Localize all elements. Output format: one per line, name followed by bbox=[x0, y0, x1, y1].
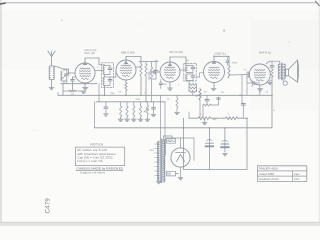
svg-text:NOTES: NOTES bbox=[90, 143, 104, 147]
svg-text:PHILIPS 462A: PHILIPS 462A bbox=[259, 167, 278, 171]
svg-text:6SA7 (M): 6SA7 (M) bbox=[84, 52, 95, 55]
svg-text:50M: 50M bbox=[136, 98, 141, 101]
svg-text:2003: 2003 bbox=[294, 178, 300, 181]
svg-text:6SQ7 (L): 6SQ7 (L) bbox=[214, 51, 226, 55]
svg-text:IFT: IFT bbox=[186, 60, 190, 63]
svg-text:240v: 240v bbox=[149, 149, 155, 152]
svg-text:Cut (L) = Can O5.: Cut (L) = Can O5. bbox=[77, 159, 103, 163]
svg-text:6U7-G (M): 6U7-G (M) bbox=[170, 50, 183, 54]
svg-text:1M: 1M bbox=[167, 98, 170, 101]
svg-text:25M: 25M bbox=[110, 92, 115, 95]
svg-text:~: ~ bbox=[148, 143, 150, 147]
svg-text:Diagram not above: Diagram not above bbox=[80, 170, 106, 174]
svg-text:C: C bbox=[200, 113, 202, 116]
svg-text:Dated 1938: Dated 1938 bbox=[259, 172, 274, 176]
svg-text:8µF: 8µF bbox=[213, 118, 218, 121]
svg-text:C: C bbox=[228, 113, 230, 116]
svg-text:100M: 100M bbox=[232, 62, 238, 65]
svg-text:page: page bbox=[294, 173, 300, 176]
svg-text:6B8-G (M): 6B8-G (M) bbox=[121, 50, 135, 54]
svg-text:6V6-G (L): 6V6-G (L) bbox=[259, 51, 271, 55]
svg-text:2M: 2M bbox=[155, 60, 158, 63]
svg-text:C479: C479 bbox=[45, 198, 52, 214]
svg-text:Redrawn circuit: Redrawn circuit bbox=[259, 177, 278, 181]
svg-text:1M: 1M bbox=[204, 91, 207, 94]
svg-text:.5M: .5M bbox=[239, 94, 243, 97]
